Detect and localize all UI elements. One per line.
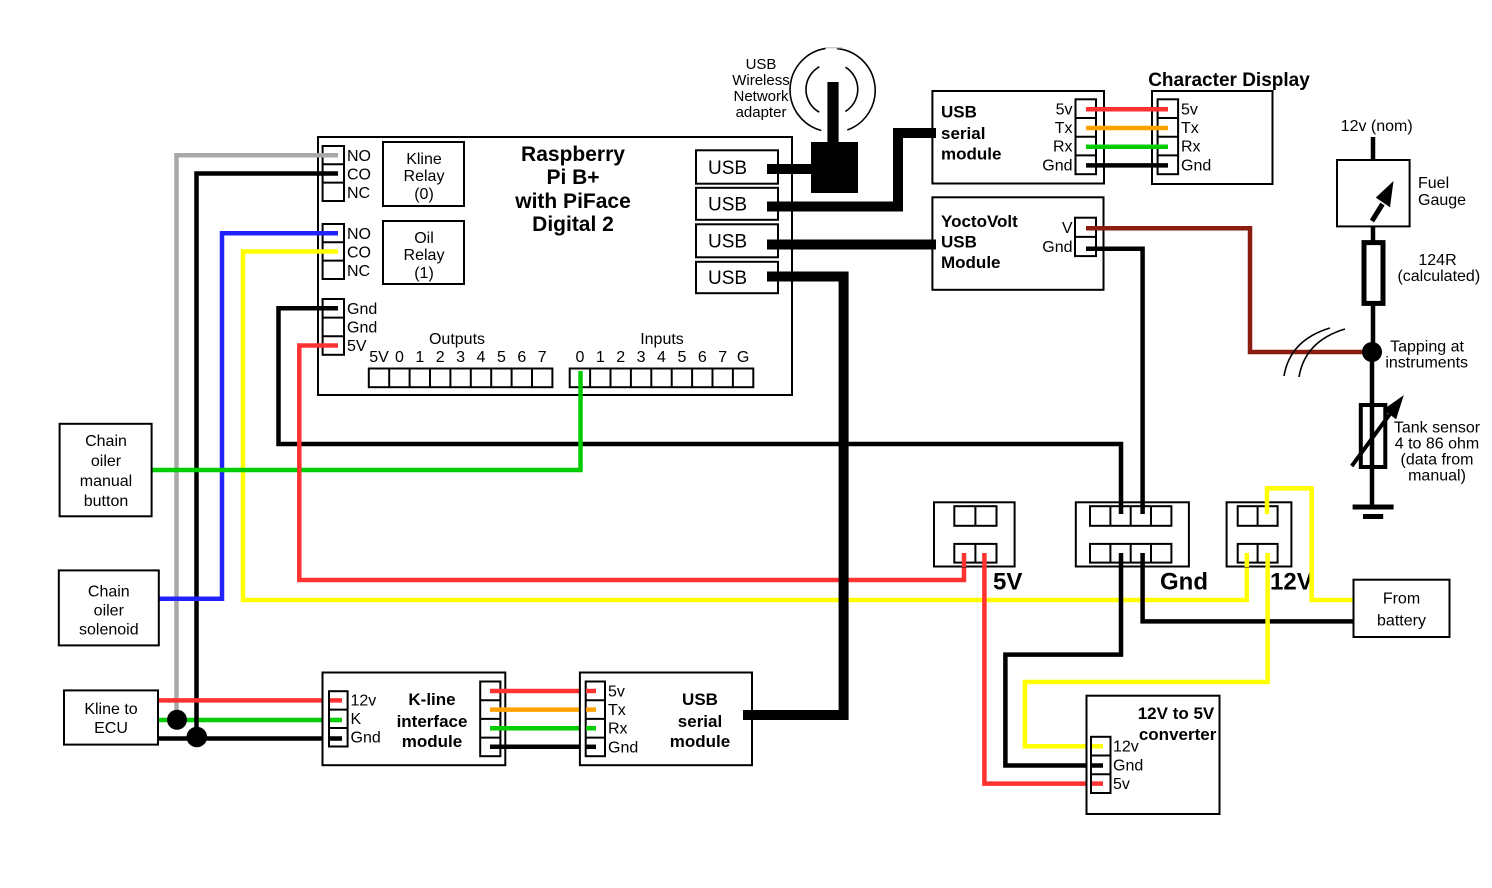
Chain oiler solenoid [59, 570, 159, 645]
svg-text:CO: CO [347, 167, 371, 184]
svg-text:(calculated): (calculated) [1397, 268, 1480, 285]
bottom USB serial module pin header 5v/Tx/Rx/Gnd [586, 682, 639, 757]
svg-text:NO: NO [347, 148, 371, 165]
svg-text:Gnd: Gnd [1042, 157, 1072, 174]
svg-text:Kline to: Kline to [84, 701, 137, 718]
svg-text:oiler: oiler [94, 603, 125, 620]
USB cable port2 to USB serial module [767, 133, 935, 207]
junction dot on K line [167, 710, 187, 730]
svg-text:battery: battery [1377, 613, 1426, 630]
svg-text:Gnd: Gnd [1113, 757, 1143, 774]
wire red: Pi 5V long run to 5V terminal block [299, 346, 964, 581]
wire black: Kline to ECU Gnd line [158, 736, 342, 741]
antenna wave outer left arc [790, 48, 826, 130]
svg-text:Gnd: Gnd [1160, 569, 1208, 596]
antenna wave outer right arc [837, 49, 875, 130]
svg-text:Tank sensor: Tank sensor [1394, 419, 1481, 436]
svg-text:Relay: Relay [404, 168, 445, 185]
svg-text:Outputs: Outputs [429, 331, 485, 348]
svg-text:module: module [670, 732, 730, 751]
svg-text:instruments: instruments [1385, 355, 1468, 372]
svg-text:Character Display: Character Display [1148, 70, 1310, 91]
svg-text:USB: USB [708, 195, 747, 216]
svg-text:K-line: K-line [408, 690, 455, 709]
svg-text:Wireless: Wireless [732, 72, 790, 89]
From battery [1354, 580, 1450, 637]
wire resistor to tapping node [1371, 303, 1376, 352]
svg-text:5v: 5v [1056, 101, 1073, 118]
svg-text:5V: 5V [347, 338, 367, 355]
Gnd distribution terminal block [1076, 502, 1208, 595]
USB cable port4 to bottom USB serial module [743, 277, 844, 716]
crossing squiggle mark 2 [1299, 329, 1345, 377]
svg-text:Gnd: Gnd [1181, 157, 1211, 174]
svg-text:adapter: adapter [736, 104, 787, 121]
svg-text:Kline: Kline [406, 151, 442, 168]
svg-text:module: module [402, 732, 462, 751]
svg-text:Chain: Chain [85, 433, 127, 450]
USB cable tip into bottom serial module [743, 710, 756, 720]
svg-text:button: button [84, 493, 128, 510]
svg-text:USB: USB [708, 158, 747, 179]
svg-text:Gnd: Gnd [608, 739, 638, 756]
svg-text:Gnd: Gnd [1042, 239, 1072, 256]
K-line module left pin header 12v/K/Gnd [329, 691, 381, 746]
wire black: Pi Gnd long run to Gnd terminal block [279, 308, 1122, 514]
svg-text:4: 4 [477, 349, 486, 366]
wire orange: K-line to USB serial Tx [490, 707, 596, 712]
Inputs header and pin labels [575, 331, 749, 366]
svg-text:3: 3 [637, 349, 646, 366]
wire tip yellow into converter 12v pin [1092, 744, 1103, 749]
Kline Relay (0) [383, 142, 464, 206]
relay 1 terminal block NO/CO/NC [323, 224, 371, 280]
svg-text:12V to 5V: 12V to 5V [1138, 704, 1215, 723]
svg-text:Raspberry: Raspberry [521, 143, 625, 166]
svg-text:5: 5 [497, 349, 506, 366]
svg-text:7: 7 [538, 349, 547, 366]
svg-text:Tx: Tx [1181, 120, 1199, 137]
junction dot on ECU Gnd line [187, 727, 208, 748]
Outputs terminal strip [369, 369, 553, 388]
wire fuel gauge to resistor [1371, 226, 1376, 243]
svg-text:with PiFace: with PiFace [514, 190, 631, 213]
svg-text:Gnd: Gnd [347, 320, 377, 337]
svg-text:K: K [351, 711, 362, 728]
svg-text:5v: 5v [608, 683, 625, 700]
USB port 3 [696, 224, 778, 257]
wire red: 5V block to converter 5v [984, 553, 1103, 784]
svg-text:Gnd: Gnd [351, 729, 381, 746]
svg-text:Gnd: Gnd [347, 301, 377, 318]
svg-text:2: 2 [616, 349, 625, 366]
Outputs header and pin labels [369, 331, 547, 366]
USB cable port1 to wireless adapter [767, 164, 815, 174]
svg-text:USB: USB [682, 690, 718, 709]
svg-text:manual: manual [80, 473, 132, 490]
Oil Relay (1) [383, 221, 464, 284]
svg-text:Module: Module [941, 253, 1001, 272]
12V distribution terminal block [1227, 502, 1313, 595]
wire brown: YoctoVolt V to tapping point [1086, 228, 1366, 352]
wire tip red into K-line 12v pin [330, 698, 342, 703]
wire green Rx serial to display [1086, 144, 1168, 149]
USB wireless adapter dongle body [811, 142, 858, 193]
wire black Gnd serial to display [1086, 163, 1168, 168]
svg-text:5v: 5v [1113, 776, 1130, 793]
USB port 2 [696, 188, 778, 220]
wire blue: Oil relay NO to chain oiler solenoid [159, 233, 338, 599]
K-line module right pin header [480, 682, 500, 757]
converter pin header 12v/Gnd/5v [1091, 737, 1143, 793]
svg-text:5v: 5v [1181, 101, 1198, 118]
tapping junction dot [1362, 342, 1382, 362]
svg-text:5V: 5V [369, 349, 389, 366]
svg-text:6: 6 [517, 349, 526, 366]
wire tip black into converter Gnd pin [1092, 763, 1103, 768]
USB serial module (bottom) [580, 673, 752, 766]
wire yellow: Oil relay CO long run to 12V terminal block [243, 252, 1247, 601]
Character Display pin header [1158, 99, 1212, 174]
wire black: YoctoVolt Gnd down to Gnd terminal block [1086, 249, 1143, 514]
svg-text:interface: interface [397, 712, 468, 731]
wire tip black into Gnd block top cell 3 [1140, 502, 1145, 514]
wire tip black into serial Gnd pin [586, 745, 596, 750]
USB wireless adapter antenna stick [827, 82, 838, 144]
wire red: K-line to USB serial 5v [490, 689, 596, 694]
USB port 1 [696, 150, 778, 183]
svg-text:NC: NC [347, 263, 370, 280]
svg-text:Network: Network [733, 88, 789, 105]
wire black: Gnd block to From battery [1143, 553, 1354, 621]
svg-text:7: 7 [718, 349, 727, 366]
wire tip green into K-line K pin [330, 718, 342, 723]
svg-text:124R: 124R [1418, 252, 1456, 269]
USB cable tip into serial module [925, 128, 936, 138]
YoctoVolt pin header V/Gnd [1042, 218, 1096, 256]
svg-text:USB: USB [708, 268, 747, 289]
svg-text:USB: USB [708, 232, 747, 253]
wire tip black into K-line Gnd pin [330, 736, 342, 741]
svg-text:1: 1 [596, 349, 605, 366]
svg-text:12v (nom): 12v (nom) [1341, 118, 1413, 135]
wire yellow: 12V block to converter 12v [1025, 553, 1268, 746]
svg-text:Rx: Rx [608, 721, 628, 738]
svg-text:12v: 12v [351, 693, 377, 710]
antenna wave inner left arc [806, 67, 819, 112]
svg-text:0: 0 [395, 349, 404, 366]
relay 0 terminal block NO/CO/NC [323, 146, 371, 202]
svg-text:6: 6 [698, 349, 707, 366]
svg-text:Gauge: Gauge [1418, 192, 1466, 209]
svg-text:Rx: Rx [1053, 139, 1073, 156]
svg-text:USB: USB [746, 56, 777, 73]
wire 12v nom to fuel gauge [1371, 137, 1376, 160]
wire tip red into converter 5v pin [1092, 781, 1103, 786]
K-line interface module [323, 673, 506, 766]
tank sensor variable resistor [1352, 395, 1404, 467]
ground symbol [1353, 507, 1394, 517]
Chain oiler manual button [60, 424, 152, 517]
svg-text:Fuel: Fuel [1418, 175, 1449, 192]
USB cable port3 to YoctoVolt module [767, 240, 935, 250]
12V to 5V converter [1087, 696, 1220, 814]
svg-text:CO: CO [347, 245, 371, 262]
svg-text:Relay: Relay [404, 247, 445, 264]
svg-text:Tapping at: Tapping at [1390, 339, 1464, 356]
svg-text:Inputs: Inputs [640, 331, 684, 348]
Tapping at instruments label [1385, 339, 1468, 372]
Fuel Gauge meter [1337, 160, 1410, 226]
wire tip black into Gnd block top cell 2 [1119, 502, 1124, 514]
power terminal block Gnd/Gnd/5V [323, 299, 378, 355]
svg-text:4: 4 [657, 349, 666, 366]
svg-text:12V: 12V [1270, 569, 1313, 596]
svg-text:0: 0 [575, 349, 584, 366]
Inputs terminal strip [570, 369, 754, 388]
svg-text:1: 1 [415, 349, 424, 366]
USB wireless adapter label [732, 56, 790, 121]
svg-text:serial: serial [941, 124, 985, 143]
svg-text:manual): manual) [1408, 468, 1466, 485]
svg-text:NC: NC [347, 185, 370, 202]
svg-text:USB: USB [941, 103, 977, 122]
wire tip red into serial 5v pin [586, 689, 596, 694]
Tank sensor label [1394, 419, 1481, 484]
wire tapping node to tank sensor [1370, 360, 1375, 405]
wire red: Kline to ECU 12v line [158, 698, 342, 703]
USB cable tip into YoctoVolt module [925, 240, 936, 250]
svg-text:(0): (0) [414, 186, 434, 203]
wire black: Kline relay CO down to ECU Gnd junction [197, 174, 339, 739]
svg-text:Pi B+: Pi B+ [546, 166, 599, 189]
svg-text:Oil: Oil [414, 230, 434, 247]
svg-text:solenoid: solenoid [79, 622, 139, 639]
USB serial module pin header [1042, 99, 1096, 174]
svg-text:Tx: Tx [608, 702, 626, 719]
wire green: Kline to ECU K line [158, 718, 342, 723]
wire tank sensor to ground [1370, 467, 1375, 507]
svg-text:4 to 86 ohm: 4 to 86 ohm [1395, 435, 1480, 452]
svg-text:converter: converter [1139, 725, 1217, 744]
USB serial module (top) [932, 91, 1104, 184]
YoctoVolt USB Module [932, 197, 1103, 289]
svg-text:NO: NO [347, 226, 371, 243]
svg-text:serial: serial [678, 712, 722, 731]
svg-text:G: G [737, 349, 749, 366]
svg-text:Tx: Tx [1055, 120, 1073, 137]
wire gray: Kline relay NO down to K junction [177, 155, 339, 720]
Raspberry Pi B+ with PiFace Digital 2 main board [318, 137, 792, 395]
5V distribution terminal block [934, 502, 1022, 595]
wire tip orange into serial Tx pin [586, 707, 596, 712]
antenna wave faint top segment [826, 47, 842, 49]
svg-text:(1): (1) [414, 265, 434, 282]
wire black: Gnd block to 12V-5V converter Gnd [1005, 553, 1121, 766]
wire tip yellow into 12V block bottom-left cell [1245, 553, 1250, 567]
Fuel Gauge label [1418, 175, 1466, 209]
antenna wave inner right arc [845, 67, 857, 111]
svg-text:12v: 12v [1113, 739, 1139, 756]
svg-text:Chain: Chain [88, 584, 130, 601]
svg-text:USB: USB [941, 233, 977, 252]
svg-text:V: V [1062, 220, 1073, 237]
svg-text:Digital 2: Digital 2 [532, 213, 614, 236]
svg-text:(data from: (data from [1401, 452, 1474, 469]
124R value label [1397, 252, 1480, 285]
wire green: chain oiler manual button to Input 0 [152, 371, 581, 470]
wire green: K-line to USB serial Rx [490, 726, 596, 731]
crossing squiggle mark 1 [1284, 328, 1330, 376]
wire black: K-line to USB serial Gnd [490, 745, 596, 750]
svg-text:module: module [941, 145, 1001, 164]
wire orange Tx serial to display [1086, 126, 1168, 131]
svg-text:3: 3 [456, 349, 465, 366]
Character Display box [1152, 91, 1273, 184]
svg-text:YoctoVolt: YoctoVolt [941, 212, 1018, 231]
Kline to ECU [64, 690, 158, 744]
svg-text:2: 2 [436, 349, 445, 366]
svg-text:oiler: oiler [91, 453, 122, 470]
resistor R 124R [1364, 243, 1383, 304]
wire tip red into 5V block bottom-left cell [962, 553, 967, 567]
svg-text:Rx: Rx [1181, 139, 1201, 156]
svg-text:5V: 5V [993, 569, 1022, 596]
svg-text:ECU: ECU [94, 720, 128, 737]
wire tip green into serial Rx pin [586, 726, 596, 731]
svg-text:5: 5 [677, 349, 686, 366]
wire yellow: 12V block to From battery [1267, 488, 1354, 600]
USB port 4 [696, 262, 778, 293]
svg-text:From: From [1383, 591, 1420, 608]
wire red 5v serial to display [1086, 107, 1168, 112]
